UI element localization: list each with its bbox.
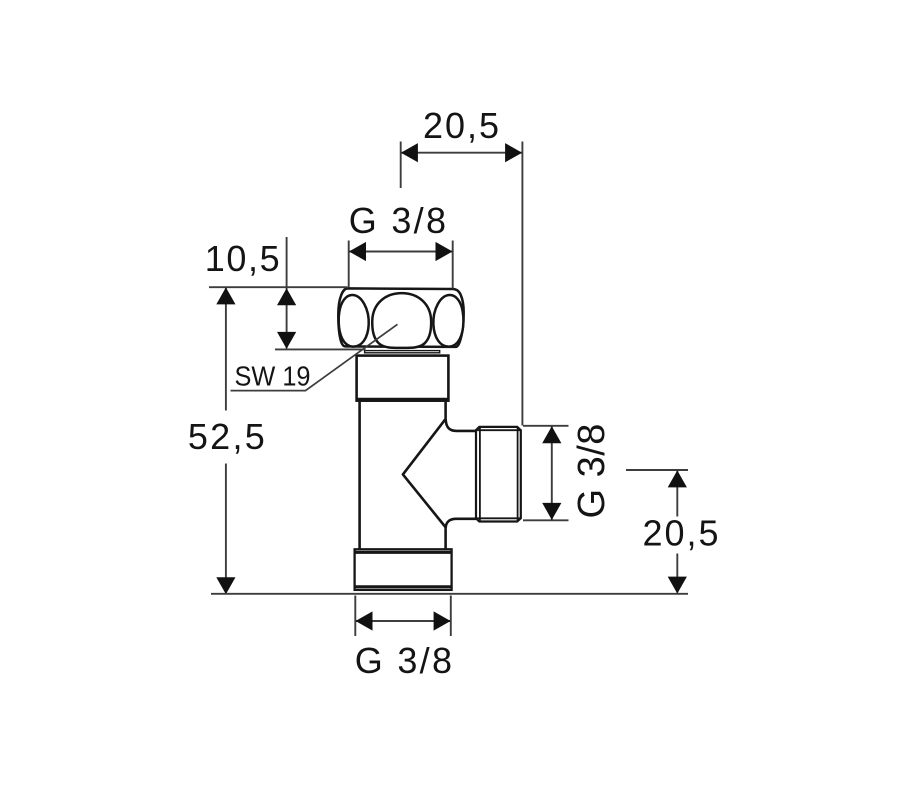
valve body left edge [358, 402, 361, 549]
side outlet threaded fitting octagon outline [476, 427, 521, 522]
bottom sleeve thick lower band [355, 585, 452, 588]
arrowhead top G 3/8 left [349, 242, 366, 261]
bore intersection chevron [403, 419, 446, 528]
branch neck top outline [446, 418, 477, 431]
extension line left of top 20,5 [400, 142, 402, 189]
dimension line right 20,5 upper segment [676, 471, 678, 517]
extension line right of top 20,5 [521, 142, 523, 426]
valve bonnet thick lower band [356, 398, 450, 402]
side outlet thread shoulder line top [476, 429, 521, 431]
side outlet thread shoulder line bottom [476, 517, 521, 519]
arrowhead 10,5 down [277, 332, 296, 349]
side outlet thread root line right [517, 427, 519, 521]
extension line right of top G 3/8 [452, 241, 454, 289]
side outlet thread root line left [479, 427, 481, 521]
arrowhead 10,5 up [277, 288, 296, 305]
extension line bottom of 10,5 [275, 348, 366, 350]
arrowhead bottom G 3/8 left [356, 611, 373, 630]
svg-text:G 3/8: G 3/8 [571, 423, 613, 518]
extension line top of 10,5 [209, 286, 348, 288]
valve body right edge upper [444, 402, 447, 418]
arrowhead 52,5 up [216, 287, 235, 304]
union nut outer silhouette [338, 288, 463, 347]
leader line from SW 19 to nut centre [231, 324, 398, 390]
arrowhead top G 3/8 right [436, 242, 453, 261]
svg-text:10,5: 10,5 [205, 238, 281, 279]
svg-text:G 3/8: G 3/8 [355, 640, 455, 681]
arrowhead right G 3/8 down [542, 503, 561, 520]
union nut centre facet lobe [372, 293, 431, 348]
dimension line bottom G 3/8 [356, 620, 451, 622]
washer ring under nut [365, 351, 440, 353]
svg-text:52,5: 52,5 [188, 416, 267, 457]
dimension line right G 3/8 vertical [551, 427, 553, 521]
dimension line 52,5 upper segment [225, 288, 227, 411]
svg-text:20,5: 20,5 [642, 513, 720, 554]
bottom datum extension line [211, 593, 688, 595]
valve body right edge lower [444, 528, 447, 549]
arrowhead 52,5 down [216, 577, 235, 594]
union nut right facet lobe [433, 295, 463, 347]
dimension line right 20,5 lower segment [676, 554, 678, 593]
svg-text:G 3/8: G 3/8 [349, 200, 449, 241]
svg-text:20,5: 20,5 [423, 105, 501, 146]
branch neck bottom outline [446, 519, 477, 529]
svg-text:SW 19: SW 19 [235, 361, 311, 392]
arrowhead right G 3/8 up [542, 426, 561, 443]
valve bonnet section [357, 356, 449, 401]
arrowhead right 20,5 down [668, 577, 687, 594]
extension line right of bottom G 3/8 [450, 596, 452, 637]
extension line left of bottom G 3/8 [354, 596, 356, 637]
dimension line top G 3/8 [349, 251, 453, 253]
arrowhead bottom G 3/8 right [434, 611, 451, 630]
dimension line 10,5 vertical [286, 237, 288, 348]
dimension line top 20,5 [401, 152, 522, 154]
extension line top of right 20,5 [626, 469, 688, 471]
arrowhead top 20,5 left [401, 143, 418, 162]
union nut left facet lobe [339, 295, 369, 347]
extension line bottom of right G 3/8 [523, 519, 569, 521]
extension line top of right G 3/8 [523, 425, 569, 427]
arrowhead top 20,5 right [505, 143, 522, 162]
bottom sleeve thick upper band [355, 551, 452, 554]
extension line left of top G 3/8 [348, 241, 350, 288]
dimension line 52,5 lower segment [225, 464, 227, 594]
bottom sleeve section [355, 549, 452, 590]
arrowhead right 20,5 up [668, 470, 687, 487]
